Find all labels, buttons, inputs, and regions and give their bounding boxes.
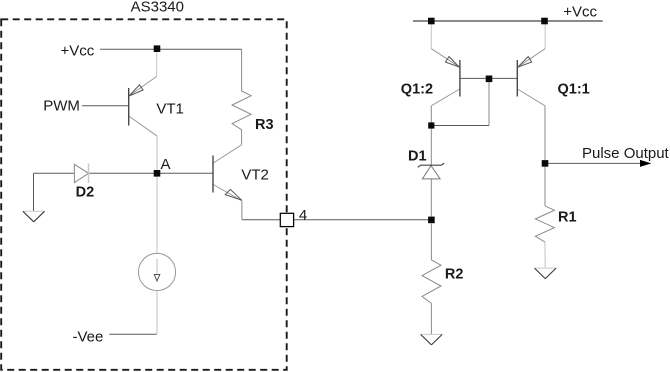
svg-text:AS3340: AS3340 <box>131 0 184 15</box>
svg-text:R1: R1 <box>558 210 577 226</box>
svg-text:Q1:2: Q1:2 <box>401 82 433 98</box>
svg-text:D1: D1 <box>408 149 427 165</box>
svg-text:Pulse Output: Pulse Output <box>582 145 670 162</box>
svg-text:PWM: PWM <box>43 97 80 114</box>
svg-text:+Vcc: +Vcc <box>61 42 95 59</box>
svg-text:R3: R3 <box>255 117 274 133</box>
svg-text:D2: D2 <box>76 185 95 201</box>
svg-text:R2: R2 <box>445 267 464 283</box>
svg-text:4: 4 <box>299 207 307 224</box>
svg-text:+Vcc: +Vcc <box>563 3 597 20</box>
svg-text:-Vee: -Vee <box>73 329 104 346</box>
svg-text:VT2: VT2 <box>241 167 269 184</box>
svg-text:VT1: VT1 <box>156 101 184 118</box>
svg-text:Q1:1: Q1:1 <box>558 82 590 98</box>
svg-text:A: A <box>161 156 171 173</box>
